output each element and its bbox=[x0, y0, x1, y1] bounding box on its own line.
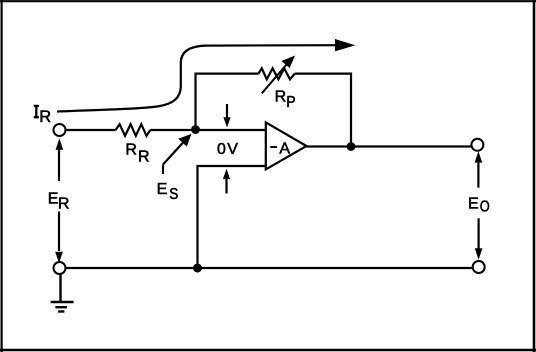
0V annotation (virtual ground across op-amp inputs) bbox=[217, 104, 238, 194]
svg-text:V: V bbox=[227, 141, 238, 158]
label IR bbox=[34, 106, 52, 126]
EO annotation arrows bbox=[475, 151, 483, 260]
wire: resistor RR to op-amp inverting input (through node ES) bbox=[150, 129, 266, 131]
svg-text:R: R bbox=[58, 196, 70, 213]
wire: feedback loop (node up, across top, down to output) bbox=[196, 74, 352, 147]
wire: non-inverting input (from bottom rail up and right) bbox=[198, 166, 267, 268]
output junction dot bbox=[347, 142, 356, 151]
svg-text:R: R bbox=[275, 89, 287, 106]
terminal: output bottom (right) bbox=[473, 261, 485, 273]
label ER bbox=[48, 190, 70, 212]
label -A (op-amp gain) bbox=[270, 140, 290, 157]
label RR bbox=[125, 141, 149, 165]
terminal: output top (right) bbox=[471, 139, 483, 151]
svg-text:P: P bbox=[286, 93, 295, 111]
terminal: input top (left) bbox=[54, 124, 66, 136]
svg-text:A: A bbox=[279, 140, 290, 157]
label ES bbox=[157, 181, 179, 203]
svg-text:0: 0 bbox=[217, 141, 226, 158]
wire: bottom rail bbox=[65, 267, 473, 269]
wire: input terminal to resistor RR bbox=[65, 129, 116, 131]
IR current flow arrow (curved) bbox=[57, 39, 355, 112]
label RP bbox=[275, 89, 296, 112]
svg-text:O: O bbox=[480, 198, 490, 216]
svg-text:R: R bbox=[125, 141, 137, 158]
svg-text:E: E bbox=[468, 196, 479, 213]
svg-text:E: E bbox=[157, 181, 168, 198]
svg-text:S: S bbox=[169, 186, 178, 203]
op-amp U1 bbox=[266, 122, 307, 169]
ES callout arrow to node bbox=[163, 134, 191, 174]
svg-text:R: R bbox=[138, 149, 150, 166]
bottom junction dot bbox=[193, 264, 202, 273]
terminal: input bottom (left) bbox=[54, 262, 66, 274]
svg-text:E: E bbox=[48, 190, 59, 207]
label EO bbox=[468, 196, 490, 216]
ER annotation arrows bbox=[55, 138, 63, 263]
svg-text:R: R bbox=[39, 108, 51, 126]
arrow through RP (variable-resistor arrow) bbox=[262, 56, 295, 94]
resistor RR bbox=[116, 124, 151, 136]
resistor RP (variable) bbox=[259, 68, 295, 79]
wire: op-amp output to output terminal bbox=[307, 145, 473, 147]
ground bbox=[51, 274, 74, 312]
node ES junction dot bbox=[191, 125, 200, 134]
